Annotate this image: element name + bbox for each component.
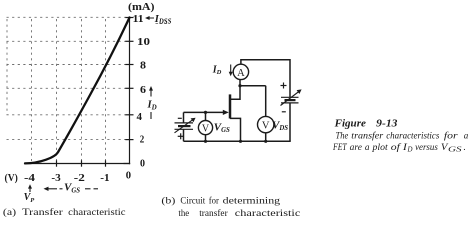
svg-text:6: 6 (140, 85, 146, 96)
svg-text:for: for (444, 131, 458, 142)
svg-text:FET: FET (332, 143, 347, 153)
svg-text:0: 0 (140, 159, 145, 170)
svg-text:for: for (209, 195, 220, 206)
svg-text:11: 11 (133, 14, 144, 25)
svg-text:Circuit: Circuit (180, 195, 205, 206)
svg-text:(a): (a) (3, 207, 16, 218)
svg-text:characteristic: characteristic (235, 208, 300, 219)
svg-text:characteristics: characteristics (386, 132, 440, 142)
svg-text:-4: -4 (24, 173, 36, 184)
svg-text:(V): (V) (5, 173, 19, 184)
svg-text:V: V (202, 123, 210, 134)
svg-text:Figure: Figure (333, 119, 366, 130)
svg-text:2: 2 (140, 135, 145, 146)
svg-text:-2: -2 (74, 173, 85, 184)
svg-text:versus: versus (415, 143, 438, 153)
svg-text:(mA): (mA) (128, 2, 155, 13)
svg-text:characteristic: characteristic (68, 207, 125, 218)
svg-text:Transfer: Transfer (22, 207, 64, 218)
svg-text:4: 4 (137, 112, 143, 123)
svg-text:the: the (178, 208, 189, 219)
svg-text:10: 10 (137, 37, 150, 48)
svg-text:8: 8 (140, 61, 146, 72)
svg-text:.: . (464, 143, 466, 153)
svg-text:-1: -1 (100, 173, 109, 184)
svg-text:-3: -3 (51, 173, 60, 184)
svg-text:a: a (464, 132, 469, 142)
svg-text:are: are (350, 143, 362, 153)
svg-text:A: A (237, 68, 245, 79)
svg-text:D: D (406, 147, 412, 154)
svg-text:(b): (b) (161, 195, 175, 206)
svg-text:transfer: transfer (199, 208, 228, 219)
svg-text:plot: plot (371, 143, 388, 153)
svg-text:a: a (365, 143, 370, 153)
svg-text:The: The (336, 132, 349, 142)
svg-text:GS: GS (448, 146, 462, 154)
svg-text:V: V (262, 121, 270, 132)
svg-text:determining: determining (223, 195, 281, 206)
svg-text:9-13: 9-13 (376, 119, 397, 130)
svg-text:transfer: transfer (351, 131, 383, 142)
svg-text:0: 0 (126, 171, 131, 182)
